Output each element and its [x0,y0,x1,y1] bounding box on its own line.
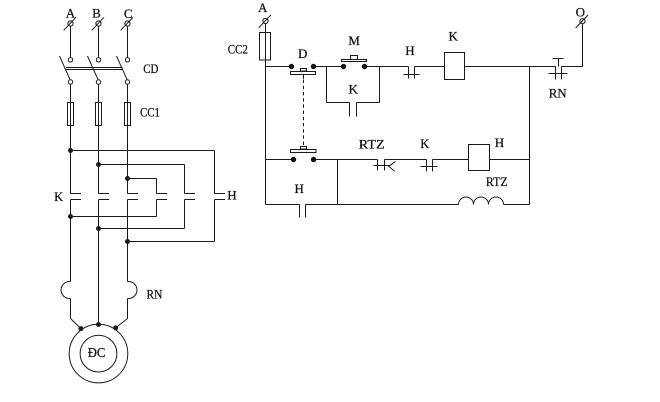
svg-text:K: K [349,82,359,97]
svg-text:B: B [92,6,101,21]
svg-text:K: K [54,190,63,204]
svg-text:CD: CD [143,61,158,76]
svg-text:H: H [227,187,236,202]
svg-text:O: O [576,4,585,19]
svg-text:K: K [420,137,429,151]
svg-text:A: A [258,0,268,15]
svg-text:RTZ: RTZ [486,174,508,189]
svg-text:H: H [405,43,414,58]
svg-text:C: C [124,6,133,21]
svg-text:RN: RN [147,286,163,301]
svg-text:D: D [298,46,307,61]
svg-text:RTZ: RTZ [359,137,385,152]
svg-text:H: H [495,135,504,150]
svg-text:RN: RN [549,85,567,100]
svg-text:H: H [295,181,304,196]
svg-text:M: M [348,33,360,48]
svg-text:ĐC: ĐC [88,346,106,361]
svg-text:A: A [66,6,76,21]
svg-text:CC2: CC2 [228,42,248,57]
svg-text:CC1: CC1 [140,105,160,120]
svg-text:K: K [449,28,459,43]
